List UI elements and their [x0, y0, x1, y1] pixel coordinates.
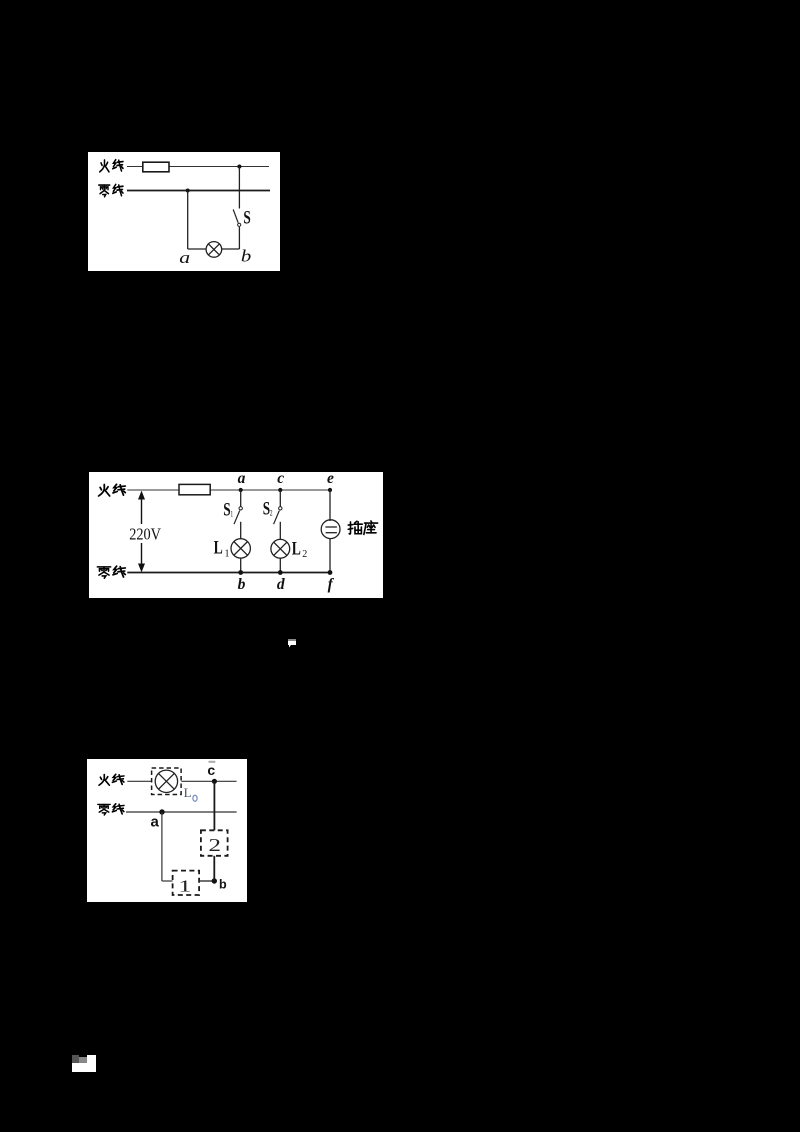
node a dot — [239, 488, 243, 492]
svg-text:a: a — [151, 814, 160, 831]
switch S2 blade — [274, 511, 280, 525]
lamp between a and b — [206, 242, 222, 258]
wire: vertical from c down to box2 — [213, 781, 215, 830]
svg-text:L: L — [292, 539, 301, 559]
lamp L1 — [231, 539, 250, 558]
wire: live line right segment — [181, 780, 236, 782]
switch S1 contact circle — [239, 507, 242, 510]
node a dot — [159, 809, 164, 814]
svg-text:S2: S2 — [263, 497, 273, 519]
branch1 wire: lamp to neutral — [240, 558, 242, 572]
wire: neutral line — [126, 811, 237, 813]
label 零线 — [98, 804, 124, 815]
dashed box 2 — [201, 830, 228, 856]
branch3 wire: e down to socket — [329, 490, 331, 521]
svg-text:2: 2 — [209, 835, 222, 855]
wire: box2 down to b — [213, 856, 215, 881]
switch S blade — [233, 210, 238, 223]
svg-text:S: S — [243, 206, 250, 228]
svg-text:c: c — [207, 762, 215, 778]
small tooltip artifact — [288, 639, 297, 648]
branch2 wire: switch to lamp — [279, 522, 281, 540]
branch1 wire: a down to switch — [240, 490, 242, 507]
svg-text:L: L — [184, 786, 192, 800]
fuse F — [143, 162, 169, 172]
fuse — [179, 484, 210, 494]
switch S contact circle — [238, 223, 241, 226]
label 零线 (neutral wire) — [99, 184, 123, 196]
svg-text:b: b — [219, 878, 227, 892]
switch S1 blade — [234, 511, 240, 525]
wire: box1 to b — [199, 880, 214, 882]
svg-text:S1: S1 — [223, 498, 233, 520]
wire: live line — [127, 489, 330, 491]
wire: right vertical lower (switch to lamp) — [238, 227, 240, 249]
node e dot — [328, 488, 332, 492]
svg-text:a: a — [179, 249, 190, 267]
svg-text:2: 2 — [302, 549, 307, 560]
branch2 wire: lamp to neutral — [279, 558, 281, 572]
node junction on neutral line — [186, 189, 190, 193]
label 火线 — [99, 774, 124, 785]
node c dot — [278, 488, 282, 492]
wire: neutral line — [127, 572, 331, 574]
wire: left vertical from neutral down — [187, 191, 189, 250]
svg-text:b: b — [241, 247, 251, 266]
wire: right vertical upper (live to switch) — [238, 167, 240, 209]
tick above c — [209, 761, 216, 763]
node d dot — [278, 570, 283, 575]
switch S2 contact circle — [279, 507, 282, 510]
wire: bottom right segment — [222, 248, 240, 250]
220V double arrow — [138, 491, 145, 573]
wire: live line — [127, 166, 269, 168]
svg-text:f: f — [328, 576, 335, 593]
svg-text:220V: 220V — [129, 524, 161, 543]
label 220V backing — [129, 524, 163, 543]
wire: live line left segment — [127, 780, 151, 782]
svg-text:b: b — [238, 576, 246, 593]
svg-text:d: d — [277, 576, 285, 593]
lamp L2 — [271, 539, 290, 558]
lamp L0 — [155, 770, 177, 792]
label 零线 — [97, 566, 125, 578]
branch1 wire: switch to lamp — [240, 522, 242, 539]
wire: neutral line — [127, 190, 270, 192]
svg-text:e: e — [327, 472, 334, 487]
socket symbol — [321, 520, 340, 539]
svg-text:L: L — [214, 538, 223, 558]
dashed box around lamp L0 — [152, 768, 182, 795]
branch2 wire: c down to switch — [279, 490, 281, 507]
svg-text:1: 1 — [225, 548, 230, 559]
shared glyph defs — [0, 0, 6, 6]
wire: vertical from a — [161, 812, 163, 881]
node c dot — [212, 779, 217, 784]
wire: horizontal a-branch to box1 — [162, 880, 173, 882]
label 火线 (live wire) — [100, 160, 123, 172]
node junction on live line — [237, 165, 241, 169]
branch3 wire: socket to neutral — [329, 539, 331, 573]
label 插座 — [348, 521, 377, 534]
wire: bottom left segment — [188, 248, 207, 250]
svg-text:c: c — [277, 472, 284, 487]
bottom-left artifact — [72, 1055, 96, 1072]
node b dot — [238, 570, 243, 575]
label 火线 — [99, 484, 126, 496]
svg-text:a: a — [238, 472, 246, 487]
svg-text:1: 1 — [178, 877, 191, 896]
node b dot — [212, 878, 217, 883]
dashed box 1 — [173, 871, 200, 895]
node f dot — [328, 570, 333, 575]
